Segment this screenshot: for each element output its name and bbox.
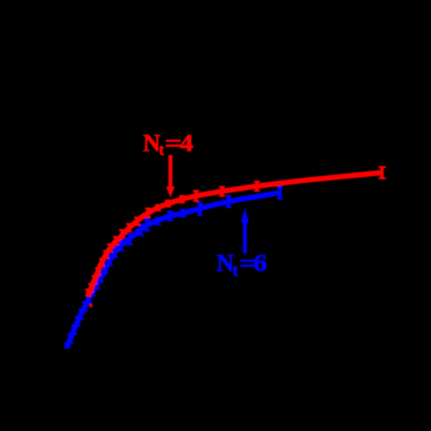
red arrow (points down to Nt=4 curve) bbox=[166, 155, 175, 198]
blue error bars (Nt=6 data) bbox=[64, 187, 283, 348]
red error bars (Nt=4 data) bbox=[85, 167, 386, 296]
svg-text:4: 4 bbox=[180, 129, 194, 156]
red stray data point bbox=[89, 304, 92, 307]
label Nt=4 bbox=[143, 129, 194, 159]
svg-text:6: 6 bbox=[253, 250, 267, 277]
label Nt=6 bbox=[217, 250, 268, 280]
red curve Nt=4 bbox=[88, 173, 382, 296]
blue arrow (points up to Nt=6 curve) bbox=[241, 208, 249, 254]
blue curve Nt=6 bbox=[67, 193, 279, 347]
